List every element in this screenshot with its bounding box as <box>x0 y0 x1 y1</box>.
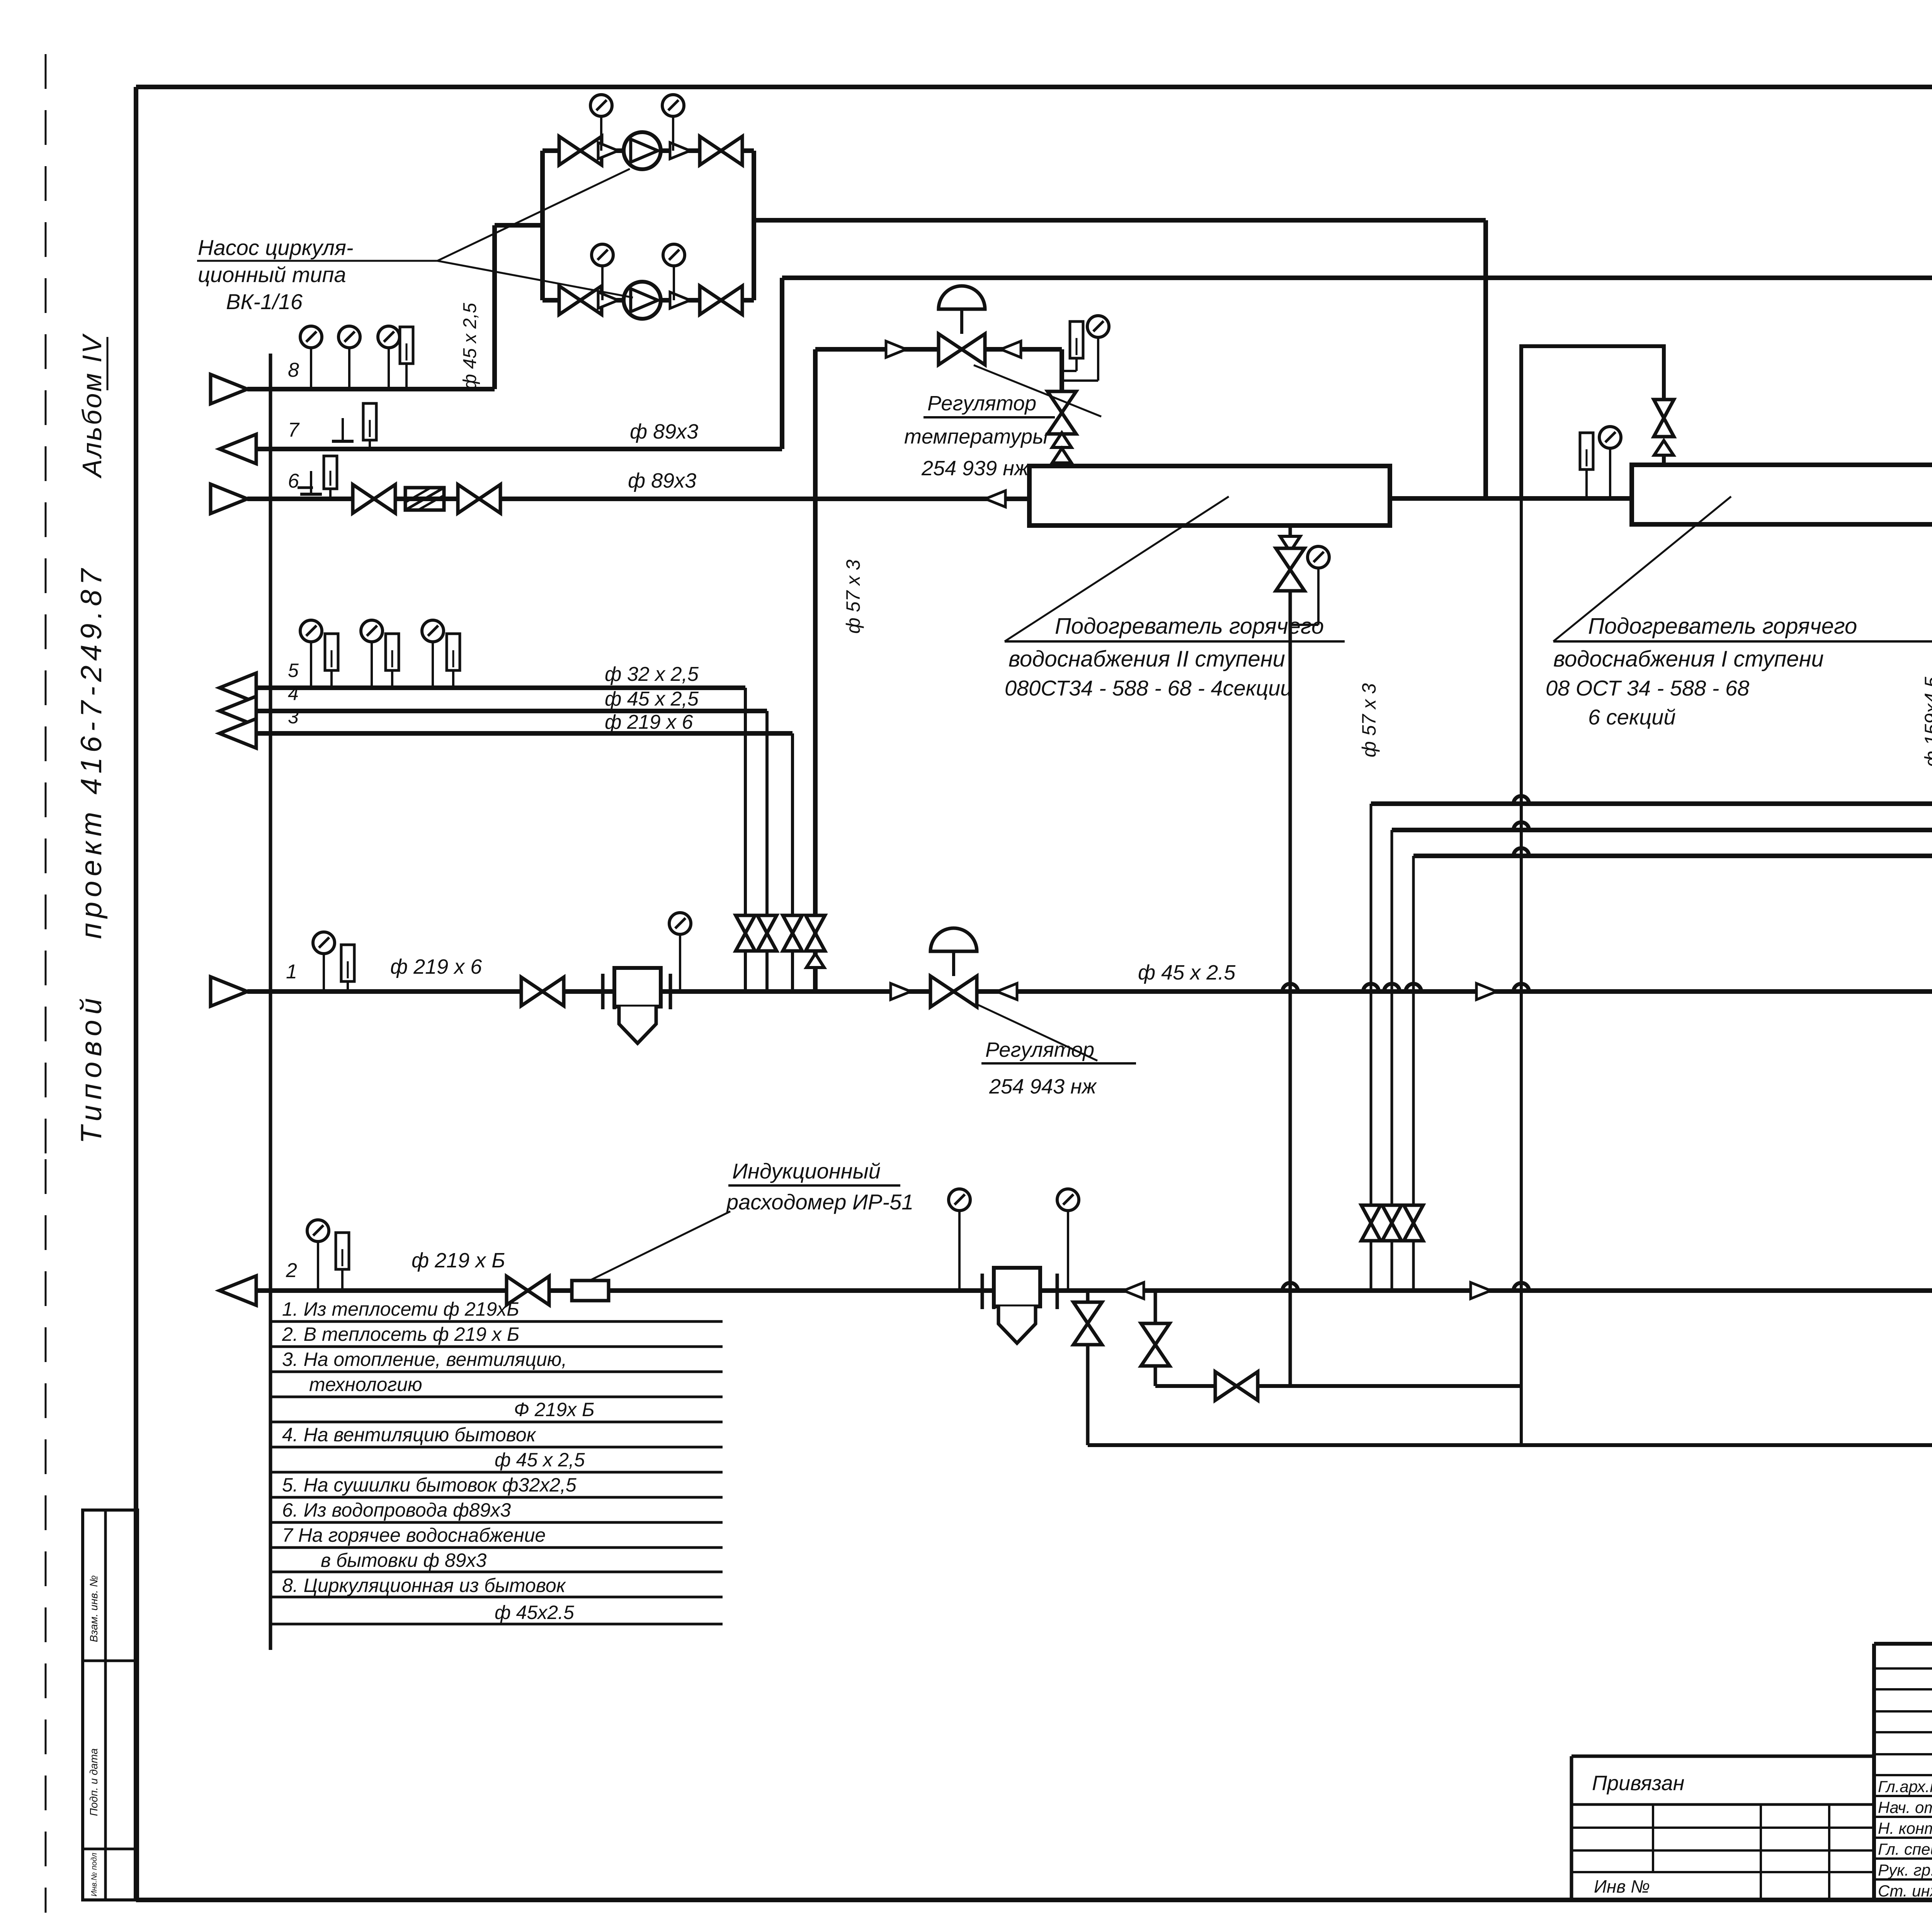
svg-text:ф 89х3: ф 89х3 <box>628 469 696 492</box>
svg-text:температуры: температуры <box>904 425 1048 448</box>
svg-text:водоснабжения I ступени: водоснабжения I ступени <box>1553 646 1824 672</box>
svg-text:ф 45 х 2,5: ф 45 х 2,5 <box>460 303 480 389</box>
svg-text:ф 45х2.5: ф 45х2.5 <box>495 1602 574 1623</box>
svg-text:ф 45 х 2,5: ф 45 х 2,5 <box>495 1449 585 1471</box>
svg-text:Инв №: Инв № <box>1594 1876 1650 1896</box>
svg-text:в бытовки ф 89: в бытовки ф 89х3 <box>321 1549 486 1571</box>
svg-text:7: 7 <box>288 419 300 441</box>
svg-text:Ф 219х Б: Ф 219х Б <box>514 1399 595 1420</box>
svg-text:080СТ34 - 588 - 68 - 4секции: 080СТ34 - 588 - 68 - 4секции <box>1005 676 1293 700</box>
svg-text:водоснабжения II ступени: водоснабжения II ступени <box>1009 646 1285 672</box>
svg-text:Подп. и дата: Подп. и дата <box>88 1748 100 1816</box>
svg-text:технологию: технологию <box>309 1374 422 1395</box>
svg-text:Гл. спец.: Гл. спец. <box>1878 1840 1932 1858</box>
svg-text:Рук. гр.: Рук. гр. <box>1878 1861 1932 1879</box>
svg-text:7 На горячее водоснабжен: 7 На горячее водоснабжение <box>282 1524 546 1546</box>
svg-text:5: 5 <box>288 660 299 681</box>
svg-text:Регулятор: Регулятор <box>985 1038 1094 1061</box>
svg-text:Насос циркуля-: Насос циркуля- <box>198 235 354 260</box>
svg-text:254 943 нж: 254 943 нж <box>989 1075 1097 1098</box>
svg-text:5. На сушилки бытовок ф3: 5. На сушилки бытовок ф32х2,5 <box>282 1474 577 1496</box>
svg-text:Ст. инж: Ст. инж <box>1878 1882 1932 1900</box>
svg-text:6 секций: 6 секций <box>1588 705 1676 729</box>
svg-text:8. Циркуляционная из бытовок: 8. Циркуляционная из бытовок <box>282 1575 566 1596</box>
svg-text:254 939 нж: 254 939 нж <box>921 457 1030 480</box>
svg-text:Альбом IV: Альбом IV <box>77 333 107 479</box>
svg-text:8: 8 <box>288 359 299 381</box>
svg-text:1. Из теплосети ф 2: 1. Из теплосети ф 219хБ <box>282 1298 519 1320</box>
svg-text:1: 1 <box>286 961 297 983</box>
svg-text:2: 2 <box>286 1259 297 1282</box>
svg-text:Регулятор: Регулятор <box>927 392 1036 415</box>
svg-text:Подогреватель горячего: Подогреватель горячего <box>1055 614 1324 639</box>
svg-text:ф 89х3: ф 89х3 <box>630 420 698 443</box>
svg-text:Гл.арх.пр: Гл.арх.пр <box>1878 1777 1932 1796</box>
svg-text:расходомер ИР-51: расходомер ИР-51 <box>726 1190 913 1214</box>
svg-text:ф 159х4,5: ф 159х4,5 <box>1921 677 1932 767</box>
svg-text:ционный типа: ционный типа <box>198 262 346 287</box>
svg-text:ф 219 х 6: ф 219 х 6 <box>605 711 693 733</box>
svg-text:проект 416-7-249.87: проект 416-7-249.87 <box>75 564 108 939</box>
svg-text:Привязан: Привязан <box>1592 1772 1684 1795</box>
svg-text:Подогреватель горячего: Подогреватель горячего <box>1588 614 1857 639</box>
svg-text:ф 45 х 2,5: ф 45 х 2,5 <box>605 688 699 710</box>
svg-text:2. В теплосеть ф 2: 2. В теплосеть ф 219 х Б <box>282 1323 519 1345</box>
svg-text:Взам. инв. №: Взам. инв. № <box>88 1575 100 1642</box>
svg-text:4. На вентиляцию бытовок: 4. На вентиляцию бытовок <box>282 1424 537 1446</box>
svg-text:ф 219 х 6: ф 219 х 6 <box>390 955 482 978</box>
svg-text:Н. контр.: Н. контр. <box>1878 1819 1932 1837</box>
svg-text:6. Из водопровода: 6. Из водопровода ф89х3 <box>282 1499 511 1521</box>
svg-text:Типовой: Типовой <box>75 993 108 1144</box>
svg-text:3. На отопление, вентиляци: 3. На отопление, вентиляцию, <box>282 1349 567 1370</box>
svg-text:6: 6 <box>288 470 299 492</box>
svg-text:Инв.№ подл: Инв.№ подл <box>90 1853 99 1896</box>
svg-text:ф 57 х 3: ф 57 х 3 <box>1358 683 1380 757</box>
svg-text:Нач. отд.: Нач. отд. <box>1878 1798 1932 1816</box>
svg-text:ф 45 х 2.5: ф 45 х 2.5 <box>1138 961 1236 984</box>
svg-text:08 ОСТ 34 - 588 - 68: 08 ОСТ 34 - 588 - 68 <box>1546 676 1749 700</box>
svg-text:4: 4 <box>288 683 299 704</box>
svg-text:3: 3 <box>288 706 299 728</box>
svg-text:ф 57 х 3: ф 57 х 3 <box>842 560 864 634</box>
svg-text:ф 32 х 2,5: ф 32 х 2,5 <box>605 663 699 685</box>
svg-text:Индукционный: Индукционный <box>732 1159 881 1183</box>
svg-text:ф 219 х Б: ф 219 х Б <box>412 1249 505 1272</box>
svg-text:ВК-1/16: ВК-1/16 <box>226 289 303 314</box>
